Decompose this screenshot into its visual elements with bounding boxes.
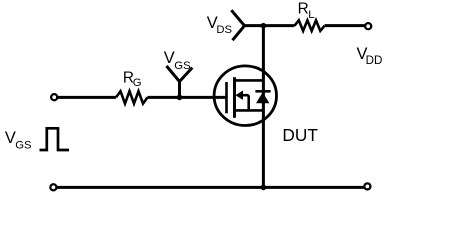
svg-text:DUT: DUT bbox=[282, 125, 318, 145]
